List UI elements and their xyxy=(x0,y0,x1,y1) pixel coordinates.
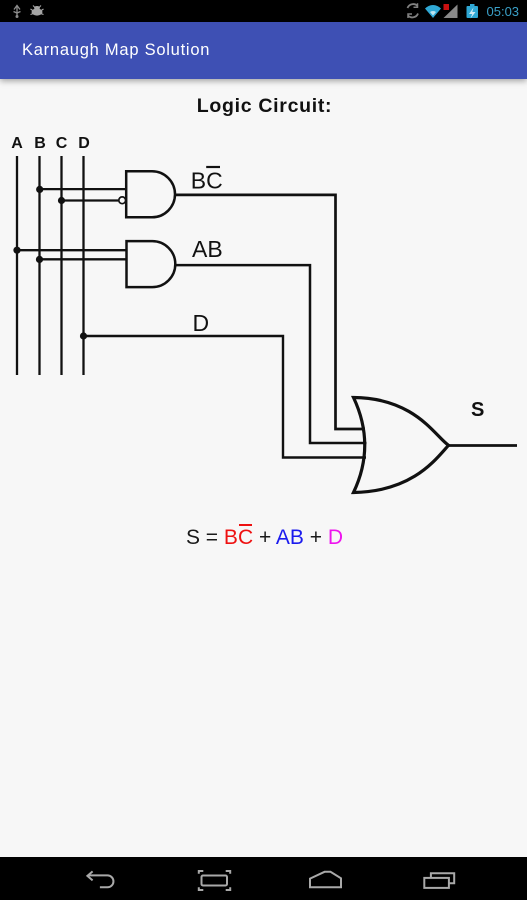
home button xyxy=(310,872,341,887)
equation S = BC̄ + AB + D xyxy=(1,526,527,550)
title bar xyxy=(0,22,527,79)
node: junction A-AND2 xyxy=(13,247,20,254)
label AB xyxy=(192,236,223,262)
back button xyxy=(87,871,113,887)
wire: C to AND1 inverted input xyxy=(62,199,119,201)
wire: input line A vertical xyxy=(16,156,18,375)
node: junction B-AND1 xyxy=(36,186,43,193)
adb bug icon xyxy=(31,6,44,16)
recent apps button xyxy=(424,873,454,888)
input label C xyxy=(56,135,68,152)
battery icon xyxy=(467,4,479,19)
wire: B to AND2 lower input xyxy=(40,258,128,260)
wire: input line D vertical xyxy=(82,156,84,375)
navigation bar xyxy=(0,857,527,900)
wire: AND1 output to OR gate xyxy=(175,195,366,429)
svg-text:D: D xyxy=(193,310,210,336)
AND gate U2 (AB) xyxy=(127,241,176,287)
wire: input line B vertical xyxy=(38,156,40,375)
node: junction D xyxy=(80,332,87,339)
svg-text:BC: BC xyxy=(191,168,223,194)
heading xyxy=(1,95,527,118)
svg-text:AB: AB xyxy=(192,236,223,262)
label BC̄ xyxy=(191,167,223,194)
input label D xyxy=(78,135,90,152)
wifi icon xyxy=(425,5,441,18)
OR gate U3 xyxy=(354,398,449,493)
wire: D to OR gate xyxy=(84,336,367,458)
inverter bubble on AND1 C input xyxy=(119,197,126,204)
label D xyxy=(193,310,210,336)
status bar xyxy=(0,0,527,22)
AND gate U1 (BC̄) xyxy=(126,171,175,217)
svg-text:D: D xyxy=(78,135,90,152)
svg-text:A: A xyxy=(11,135,23,152)
label S (output) xyxy=(471,399,484,421)
input label B xyxy=(34,135,46,152)
svg-text:C: C xyxy=(56,135,68,152)
svg-text:B: B xyxy=(34,135,46,152)
wire: input line C vertical xyxy=(60,156,62,375)
resize/zoom button xyxy=(199,871,230,890)
sync icon xyxy=(408,3,419,18)
node: junction B-AND2 xyxy=(36,256,43,263)
usb icon xyxy=(14,6,21,19)
node: junction C-AND1 xyxy=(58,197,65,204)
svg-text:S: S xyxy=(471,399,484,421)
wire: B to AND1 upper input xyxy=(40,188,127,190)
wire: A to AND2 upper input xyxy=(17,249,127,251)
wire: OR output S xyxy=(449,444,517,447)
input label A xyxy=(11,135,23,152)
wire: AND2 output to OR gate xyxy=(175,265,367,443)
status bar icons xyxy=(0,0,527,22)
cell signal icon xyxy=(444,4,458,18)
